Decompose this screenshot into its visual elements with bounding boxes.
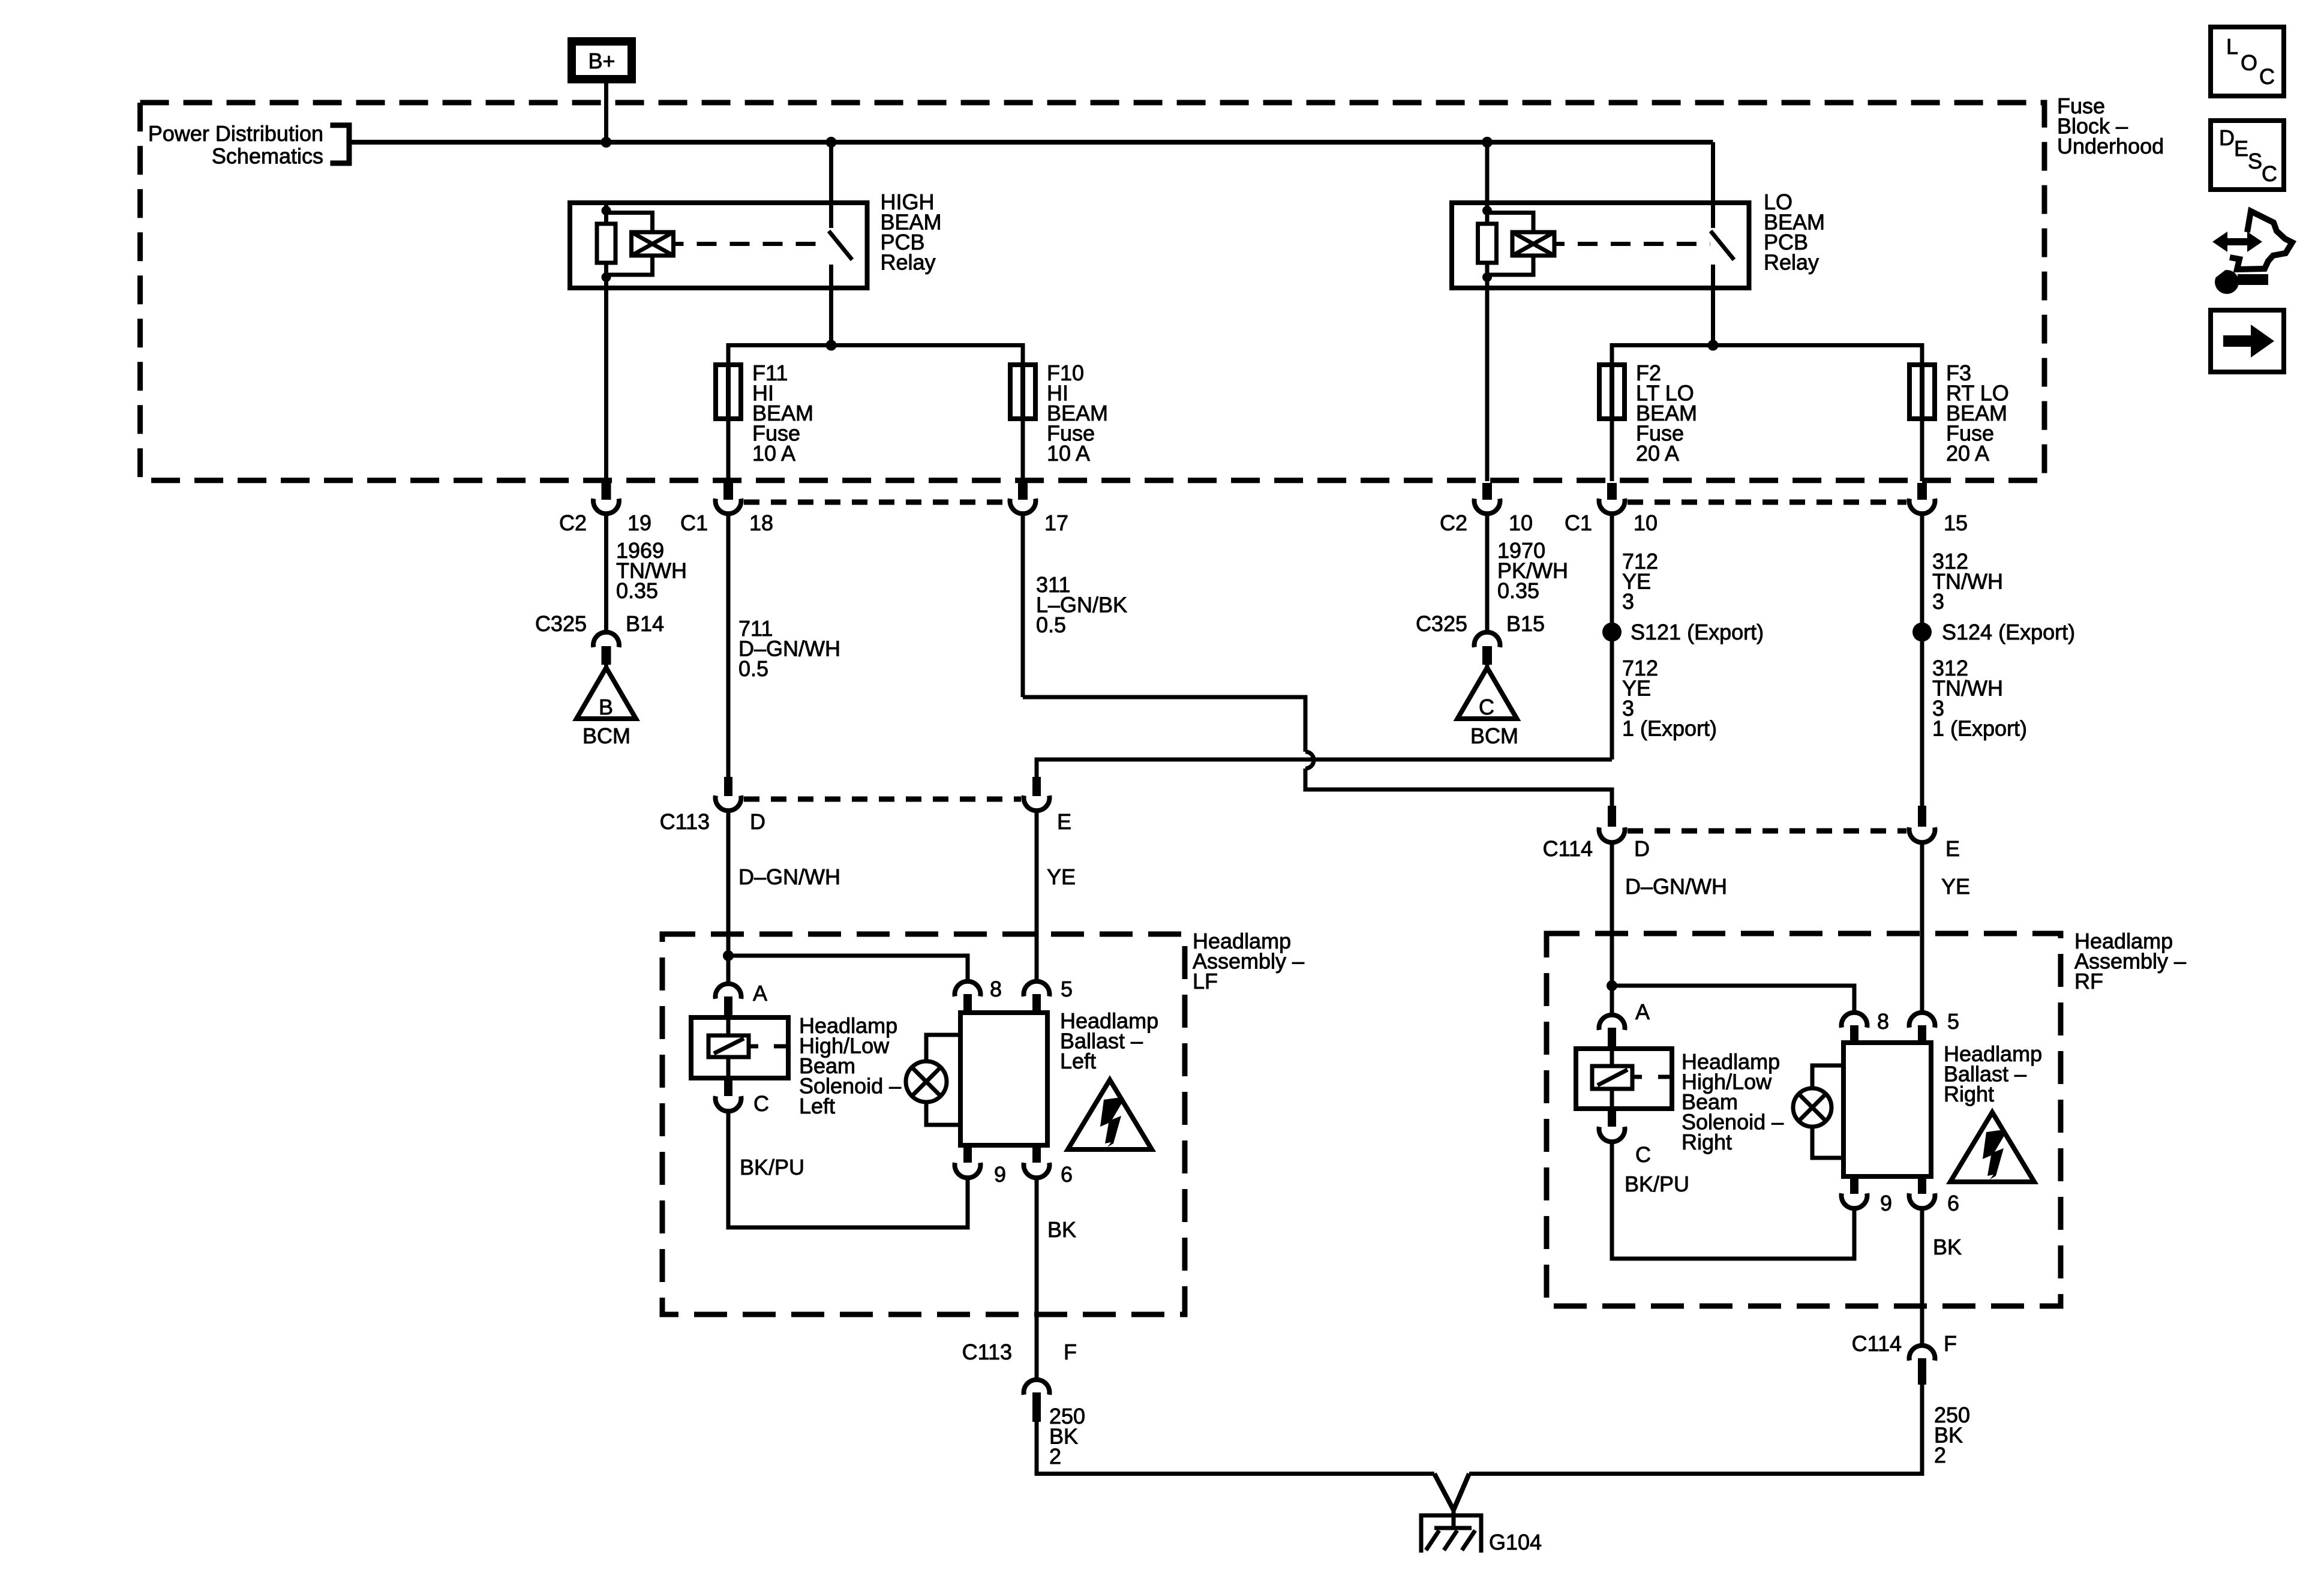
label: F10 HI BEAM Fuse 10 A <box>1047 361 1108 466</box>
off-page triangle C (BCM) <box>1458 668 1517 719</box>
junction node B+ / bus <box>601 137 612 148</box>
label: Headlamp Assembly - LF <box>1193 929 1304 993</box>
svg-text:Relay: Relay <box>1764 250 1819 275</box>
icon next-page arrow box <box>2211 310 2284 372</box>
svg-text:L: L <box>2226 34 2238 59</box>
wire HIGH relay switch to fuse feed rail <box>829 288 833 346</box>
connector pin 6 (right ballast) <box>1909 1176 1935 1208</box>
relay LO BEAM PCB K2 coil resistor <box>1478 203 1497 288</box>
wire 712 YE C1-10 down through S121 <box>1610 513 1614 760</box>
svg-text:B+: B+ <box>588 49 615 73</box>
labels C325 B15 <box>1416 611 1545 636</box>
svg-text:20 A: 20 A <box>1946 441 1989 466</box>
svg-text:E: E <box>1057 809 1071 834</box>
bracket at Power Distribution Schematics <box>331 125 350 163</box>
wire BK ballast pin6 to C114-F <box>1920 1210 1924 1344</box>
icon adjust double-arrow <box>2212 232 2262 252</box>
connector terminal C2-10 at fuse block <box>1475 483 1500 514</box>
svg-text:1 (Export): 1 (Export) <box>1622 716 1717 741</box>
lamp symbol (left) <box>906 1061 947 1102</box>
svg-text:2: 2 <box>1049 1444 1061 1469</box>
svg-text:15: 15 <box>1944 511 1968 535</box>
svg-text:5: 5 <box>1061 977 1073 1001</box>
connector pin 5 (left ballast) <box>1024 981 1050 1013</box>
svg-text:C: C <box>1479 695 1494 719</box>
svg-text:RF: RF <box>2074 969 2103 993</box>
svg-text:6: 6 <box>1947 1191 1959 1215</box>
svg-text:C114: C114 <box>1543 836 1593 861</box>
label: Headlamp High/Low Beam Solenoid - Left <box>799 1013 901 1118</box>
connector pin 6 (left ballast) <box>1024 1145 1050 1178</box>
svg-text:D–GN/WH: D–GN/WH <box>738 864 840 889</box>
label: wire 312 TN/WH 3 <box>1932 549 2003 614</box>
relay HIGH BEAM PCB K1 coil element (X-box) <box>606 213 684 275</box>
svg-text:C113: C113 <box>962 1340 1012 1364</box>
svg-text:10 A: 10 A <box>752 441 795 466</box>
svg-text:C325: C325 <box>535 611 587 636</box>
label: F3 RT LO BEAM Fuse 20 A <box>1946 361 2009 466</box>
wire 1969 TN/WH to C325 <box>604 513 608 631</box>
svg-text:18: 18 <box>749 511 773 535</box>
svg-text:6: 6 <box>1061 1162 1073 1187</box>
svg-text:A: A <box>753 981 767 1005</box>
label: wire 1969 TN/WH 0.35 <box>616 538 687 603</box>
svg-text:5: 5 <box>1947 1009 1959 1034</box>
lamp bracket (right) <box>1812 1065 1843 1158</box>
svg-text:20 A: 20 A <box>1636 441 1679 466</box>
svg-text:C2: C2 <box>559 511 587 535</box>
connector pin A (left solenoid) <box>715 984 741 1017</box>
warning triangle high voltage (left) <box>1068 1080 1152 1149</box>
svg-text:0.5: 0.5 <box>1036 613 1066 637</box>
splice S124 (Export) <box>1912 623 1932 642</box>
svg-text:G104: G104 <box>1489 1530 1542 1554</box>
svg-text:C: C <box>2259 64 2275 89</box>
svg-text:3: 3 <box>1932 589 1944 614</box>
svg-text:2: 2 <box>1934 1443 1946 1467</box>
label: Power Distribution Schematics <box>148 121 323 169</box>
svg-text:9: 9 <box>994 1162 1006 1187</box>
svg-text:B14: B14 <box>626 611 664 636</box>
label: Headlamp High/Low Beam Solenoid - Right <box>1682 1049 1783 1154</box>
wire C114-D into assembly <box>1610 844 1614 1013</box>
connector C113-D <box>716 777 741 810</box>
svg-text:LF: LF <box>1193 969 1218 993</box>
wire LO relay coil to C2-10 <box>1485 288 1490 481</box>
svg-text:Right: Right <box>1944 1082 1994 1106</box>
solenoid box (right) <box>1576 1049 1672 1109</box>
ballast box (left) <box>960 1013 1047 1145</box>
svg-text:3: 3 <box>1622 589 1634 614</box>
wire 250 BK right to ground <box>1469 1385 1922 1474</box>
label: F2 LT LO BEAM Fuse 20 A <box>1636 361 1697 466</box>
warning triangle high voltage (right) <box>1950 1112 2034 1182</box>
wire 311 crossover run to C114-D <box>1023 697 1612 806</box>
wire B+ to bus <box>604 83 608 142</box>
svg-text:C1: C1 <box>1565 511 1592 535</box>
svg-text:Relay: Relay <box>881 250 936 275</box>
svg-text:Right: Right <box>1682 1130 1732 1154</box>
fuse F10 <box>1010 365 1035 419</box>
svg-text:10 A: 10 A <box>1047 441 1090 466</box>
fuse F3 <box>1909 365 1935 419</box>
junction node bus / LO relay coil <box>1482 137 1493 148</box>
svg-text:YE: YE <box>1047 864 1076 889</box>
wire 711 D-GN/WH C1-18 to C113-D <box>726 513 731 777</box>
relay LO BEAM PCB K2 switch <box>1711 203 1734 288</box>
relay LO BEAM PCB K2 coil element (X-box) <box>1487 213 1565 275</box>
icon adjust bent-arrow outline <box>2230 211 2292 269</box>
connector C114-F <box>1909 1346 1935 1385</box>
svg-text:E: E <box>1945 836 1960 861</box>
wire F11 to C1-18 <box>726 419 731 481</box>
svg-text:D–GN/WH: D–GN/WH <box>1625 874 1727 899</box>
svg-text:O: O <box>2241 50 2257 75</box>
relay LO BEAM PCB K2 actuation dashed link <box>1578 242 1710 246</box>
connector C113-E <box>1024 777 1050 810</box>
label: wire 712 YE 3 1 (Export) <box>1622 656 1717 741</box>
junction node LO fuse rail <box>1708 340 1719 351</box>
wire HI fuse feed rail F11-F10 <box>728 346 1023 365</box>
connector C1 dashed link (10-15) <box>1628 500 1906 505</box>
svg-text:0.35: 0.35 <box>616 578 658 603</box>
wire C113-D into assembly <box>726 812 731 984</box>
solenoid coil element (right) <box>1592 1066 1672 1089</box>
svg-text:D: D <box>1634 836 1650 861</box>
wire: main B+ distribution bus <box>351 140 1713 145</box>
svg-text:Power Distribution: Power Distribution <box>148 121 323 146</box>
junction node solenoid feed (left) <box>723 950 734 961</box>
svg-text:BK/PU: BK/PU <box>1625 1172 1689 1196</box>
connector pin 9 (left ballast) <box>955 1145 981 1178</box>
labels C113 D E <box>660 809 1071 834</box>
headlamp assembly LF dashed box <box>662 934 1185 1314</box>
fuse F11 <box>716 365 741 419</box>
label: wire 312 TN/WH 3 1 (Export) <box>1932 656 2027 741</box>
wire C114-E to ballast pin 5 (right) <box>1920 844 1924 1011</box>
icon LOC box <box>2211 27 2284 96</box>
fuse F2 <box>1599 365 1625 419</box>
connector C325-B15 <box>1475 632 1500 670</box>
ballast box (right) <box>1843 1043 1931 1176</box>
svg-text:S121 (Export): S121 (Export) <box>1631 620 1764 644</box>
lamp bracket (left) <box>926 1035 960 1125</box>
svg-text:8: 8 <box>990 977 1002 1001</box>
svg-text:YE: YE <box>1941 874 1970 899</box>
icon wrench <box>2206 260 2268 294</box>
svg-text:10: 10 <box>1634 511 1658 535</box>
labels connector row <box>559 511 1968 535</box>
svg-text:Schematics: Schematics <box>212 144 323 169</box>
labels C113 F <box>962 1340 1077 1364</box>
svg-text:B15: B15 <box>1506 611 1545 636</box>
relay HIGH BEAM PCB K1 coil junction dots <box>602 206 611 215</box>
connector pin C (left solenoid) <box>715 1078 741 1111</box>
svg-text:0.5: 0.5 <box>738 656 768 681</box>
label: Headlamp Ballast - Left <box>1060 1008 1158 1073</box>
svg-text:C: C <box>753 1091 769 1116</box>
wire bus to HIGH relay switch <box>829 142 833 203</box>
wire F3 to pin 15 <box>1920 419 1924 481</box>
connector terminal C1-10 at fuse block <box>1599 483 1625 514</box>
lamp symbol (right) <box>1793 1088 1831 1127</box>
svg-text:C2: C2 <box>1440 511 1467 535</box>
junction node bus / HIGH relay switch <box>826 137 837 148</box>
relay HIGH BEAM PCB K1 actuation dashed link <box>697 242 828 246</box>
wire bus to LO relay switch <box>1711 142 1715 203</box>
off-page triangle B (BCM) <box>577 668 636 719</box>
label: LO BEAM PCB Relay <box>1764 190 1825 275</box>
connector terminal C1-18 at fuse block <box>716 483 741 514</box>
ground lead V-join <box>1434 1474 1469 1530</box>
svg-text:D: D <box>750 809 765 834</box>
svg-text:B: B <box>599 695 613 719</box>
wire 311 L-GN/BK pin17 down <box>1021 513 1025 697</box>
label: wire 712 YE 3 <box>1622 549 1658 614</box>
labels C114 D E <box>1543 836 1960 861</box>
connector C113 dashed link (D-E) <box>744 797 1021 802</box>
wire BK/PU pin C to ballast pin 9 (left) <box>728 1113 968 1227</box>
wire F10 to pin 17 <box>1021 419 1025 481</box>
svg-text:A: A <box>1635 999 1650 1024</box>
wire branch to ballast pin 8 (left) <box>728 956 968 982</box>
label: wire 250 BK 2 (right) <box>1934 1403 1970 1467</box>
relay HIGH BEAM PCB K1 box <box>570 203 867 288</box>
wire 312 TN/WH pin15 down through S124 <box>1920 513 1924 806</box>
svg-text:Left: Left <box>1060 1049 1096 1073</box>
svg-text:C1: C1 <box>680 511 708 535</box>
connector C114-E <box>1909 806 1935 842</box>
svg-text:C325: C325 <box>1416 611 1467 636</box>
connector C325-B14 <box>593 632 619 670</box>
relay LO BEAM PCB K2 coil junction dots <box>1482 206 1492 215</box>
svg-text:F: F <box>1944 1331 1957 1356</box>
solenoid box (left) <box>691 1017 788 1078</box>
connector C114-D <box>1599 806 1625 842</box>
wire LO relay switch to fuse feed rail <box>1711 288 1715 346</box>
svg-text:0.35: 0.35 <box>1497 578 1539 603</box>
wire LO fuse feed rail F2-F3 <box>1612 346 1922 365</box>
wire 1970 PK/WH to C325 <box>1485 513 1490 631</box>
junction node solenoid feed (right) <box>1607 980 1617 991</box>
svg-text:17: 17 <box>1044 511 1068 535</box>
wire BK ballast pin6 to C113-F <box>1035 1179 1039 1378</box>
connector pin 9 (right ballast) <box>1842 1176 1867 1208</box>
connector pin 5 (right ballast) <box>1909 1013 1935 1043</box>
label: HIGH BEAM PCB Relay <box>881 190 942 275</box>
svg-text:BCM: BCM <box>1470 724 1518 748</box>
svg-text:D: D <box>2219 125 2235 150</box>
label: F11 HI BEAM Fuse 10 A <box>752 361 813 466</box>
solenoid coil element (left) <box>708 1035 788 1057</box>
connector terminal 15 at fuse block <box>1909 483 1935 514</box>
svg-text:Underhood: Underhood <box>2057 134 2164 158</box>
connector C113-F <box>1024 1380 1050 1422</box>
svg-text:1 (Export): 1 (Export) <box>1932 716 2027 741</box>
connector pin 8 (right ballast) <box>1842 1013 1867 1043</box>
svg-text:Left: Left <box>799 1094 835 1118</box>
wire HIGH relay coil to C2-19 <box>604 288 608 481</box>
connector terminal 17 at fuse block <box>1010 483 1036 514</box>
connector pin 8 (left ballast) <box>955 981 981 1013</box>
svg-text:9: 9 <box>1880 1191 1892 1215</box>
svg-text:S: S <box>2248 149 2262 173</box>
label: wire 1970 PK/WH 0.35 <box>1497 538 1568 603</box>
label: Headlamp Ballast - Right <box>1944 1041 2042 1106</box>
icon DESC box <box>2211 121 2284 190</box>
label: Fuse Block - Underhood <box>2057 94 2164 158</box>
svg-text:10: 10 <box>1509 511 1533 535</box>
connector C114 dashed link (D-E) <box>1628 828 1906 834</box>
relay HIGH BEAM PCB K1 switch <box>829 203 852 288</box>
svg-text:E: E <box>2234 136 2248 161</box>
svg-text:BK/PU: BK/PU <box>740 1155 804 1179</box>
splice S121 (Export) <box>1602 623 1622 642</box>
wire branch to ballast pin 8 (right) <box>1612 986 1854 1011</box>
headlamp assembly RF dashed box <box>1547 933 2061 1306</box>
svg-text:BCM: BCM <box>582 724 630 748</box>
relay LO BEAM PCB K2 box <box>1452 203 1749 288</box>
svg-text:C113: C113 <box>660 809 710 834</box>
svg-text:S124 (Export): S124 (Export) <box>1942 620 2075 644</box>
label: wire 250 BK 2 (left) <box>1049 1404 1085 1469</box>
ground symbol G104 <box>1421 1515 1481 1553</box>
svg-text:C114: C114 <box>1852 1331 1902 1356</box>
wire F2 to C1-10 <box>1610 419 1614 481</box>
fuse block underhood dashed boundary box <box>140 103 2044 481</box>
wire 712 YE run to C113-E <box>1037 760 1612 777</box>
labels C325 B14 <box>535 611 664 636</box>
label: Headlamp Assembly - RF <box>2074 929 2186 993</box>
wire BK/PU pin C to ballast pin 9 (right) <box>1612 1143 1854 1259</box>
svg-text:C: C <box>2262 161 2277 186</box>
wire bus to LO relay coil <box>1485 142 1490 203</box>
svg-text:BK: BK <box>1933 1235 1962 1259</box>
label: wire 711 D-GN/WH 0.5 <box>738 616 840 681</box>
wire C113-E to ballast pin 5 (left) <box>1035 812 1039 980</box>
junction node HI fuse rail <box>826 340 837 351</box>
svg-text:BK: BK <box>1047 1217 1076 1242</box>
B+ battery feed symbol <box>572 41 632 79</box>
svg-text:19: 19 <box>627 511 651 535</box>
connector C1 dashed link (18-17) <box>744 500 1007 505</box>
connector pin A (right solenoid) <box>1599 1015 1625 1049</box>
connector pin C (right solenoid) <box>1599 1109 1625 1142</box>
connector terminal C2-19 at fuse block <box>593 483 619 514</box>
svg-text:F: F <box>1064 1340 1077 1364</box>
relay HIGH BEAM PCB K1 coil resistor <box>597 203 615 288</box>
label: wire 311 L-GN/BK 0.5 <box>1036 572 1127 637</box>
wire 250 BK left to ground <box>1037 1422 1434 1474</box>
svg-text:8: 8 <box>1877 1009 1889 1034</box>
svg-text:C: C <box>1635 1142 1651 1167</box>
labels C114 F <box>1852 1331 1957 1356</box>
